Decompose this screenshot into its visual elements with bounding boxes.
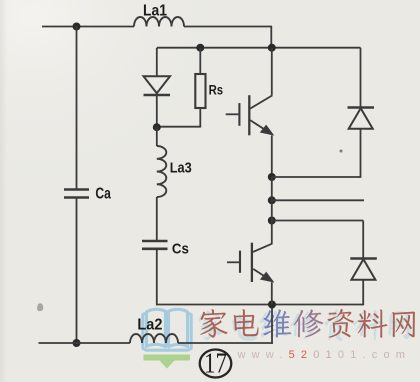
- watermark green ribbon: [144, 355, 191, 369]
- watermark book icon: [143, 309, 191, 350]
- wire D3 anode lead: [362, 280, 364, 306]
- wire D1 anode lead: [156, 48, 158, 76]
- wire Q2 emitter lead: [271, 282, 273, 304]
- figure number 17 circled: [200, 349, 232, 380]
- wire left rail upper: [76, 26, 78, 189]
- wire Q1 emitter lead: [271, 135, 273, 177]
- speck: [340, 150, 343, 153]
- capacitor Cs: [142, 240, 168, 243]
- wire bottom rail right: [178, 342, 273, 344]
- wire Rs bottom lead: [199, 108, 201, 128]
- resistor Rs: [195, 74, 205, 108]
- wire Rs top lead: [199, 48, 201, 74]
- wire Q1 collector lead: [271, 48, 273, 96]
- diode D1: [144, 76, 171, 93]
- wire bottom rail left: [39, 342, 131, 344]
- svg-text:Rs: Rs: [209, 83, 224, 98]
- wire Q2 collector lead: [271, 221, 273, 244]
- wire output line 1: [272, 199, 364, 201]
- svg-text:La1: La1: [143, 3, 167, 20]
- svg-text:Cs: Cs: [172, 240, 189, 257]
- watermark blue script text: [199, 310, 411, 342]
- wire La3 to Cs: [156, 197, 158, 241]
- node mid junction: [268, 301, 276, 309]
- wire node A to La3: [156, 127, 158, 146]
- wire top-right corner down: [270, 27, 272, 48]
- capacitor Ca: [64, 188, 89, 191]
- svg-text:La2: La2: [137, 317, 162, 334]
- wire left rail lower: [76, 198, 78, 344]
- inductor La2: [130, 334, 178, 343]
- wire Rs to node A: [156, 126, 200, 128]
- inductor La1: [134, 17, 184, 27]
- wire top rail right: [184, 26, 272, 28]
- wire mid rail: [156, 304, 363, 306]
- svg-text:17: 17: [204, 349, 227, 380]
- node top-left junction: [73, 23, 81, 31]
- wire D2 anode lead: [360, 129, 362, 178]
- node collector junction: [268, 44, 276, 52]
- wire second rail: [157, 47, 361, 49]
- wire bottom rail up to mid node: [271, 305, 273, 344]
- smudge: [37, 303, 43, 311]
- node A junction: [153, 123, 161, 131]
- node Rs top junction: [196, 44, 204, 52]
- wire emitter row to D2: [272, 176, 361, 178]
- wire D1 cathode lead: [156, 95, 158, 128]
- watermark red text 家电维修资料网: [200, 309, 415, 338]
- node output1 junction: [268, 196, 276, 204]
- node output2 junction: [268, 217, 276, 225]
- node emitter junction: [268, 173, 276, 181]
- transistor Q1: [226, 95, 273, 135]
- transistor Q2: [227, 243, 272, 282]
- diode D3: [350, 257, 377, 260]
- svg-text:www.520101.com: www.520101.com: [237, 349, 412, 361]
- wire D2 cathode lead: [360, 48, 362, 108]
- wire output line 2: [272, 220, 363, 222]
- wire Cs to mid rail: [156, 249, 158, 305]
- wire D3 cathode lead: [362, 221, 364, 259]
- node bottom-left junction: [73, 339, 81, 347]
- diode D2: [348, 106, 375, 109]
- svg-text:Ca: Ca: [95, 185, 111, 202]
- wire top rail left: [42, 26, 134, 28]
- inductor La3: [157, 146, 167, 197]
- wire Q1-Q2 link: [271, 177, 273, 221]
- svg-text:La3: La3: [170, 160, 192, 177]
